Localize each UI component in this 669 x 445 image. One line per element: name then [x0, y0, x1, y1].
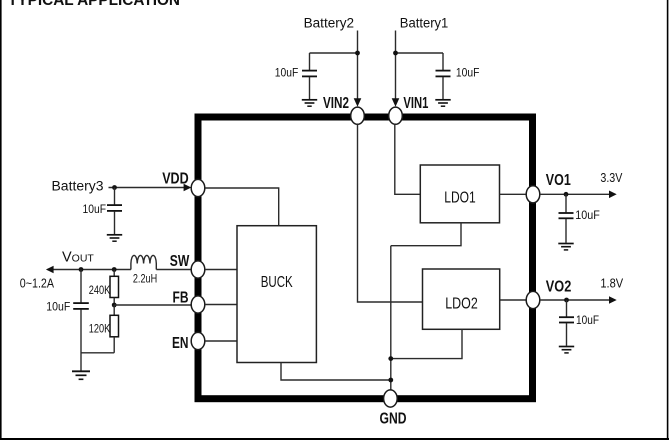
svg-text:240K: 240K: [89, 285, 111, 297]
label Battery1: [400, 15, 449, 30]
junction Battery1/VIN1: [393, 51, 398, 56]
label 0~1.2A: [20, 277, 55, 291]
wire Battery2 drop: [357, 31, 359, 102]
junction Battery3/C3: [112, 185, 117, 190]
pin FB: [191, 296, 205, 313]
ground C4: [72, 371, 90, 379]
resistor R2 120K: [110, 305, 119, 353]
arrow VOUT left: [46, 266, 54, 274]
capacitor C5 10uF: [559, 194, 574, 243]
wire VDD into BUCK top: [205, 188, 279, 226]
resistor R1 240K: [110, 270, 119, 306]
title TYPICAL APPLICATION (cut off at top): [8, 0, 180, 9]
wire LDO1 return: [391, 223, 461, 246]
pin EN: [191, 332, 205, 349]
label 1.8V: [600, 276, 623, 290]
svg-text:0~1.2A: 0~1.2A: [20, 277, 55, 291]
svg-text:2.2uH: 2.2uH: [133, 272, 157, 286]
wire FB to BUCK: [205, 304, 237, 306]
junction LDO2 return / GND trunk: [388, 356, 393, 361]
inductor L1 2.2uH: [131, 255, 156, 269]
ground C2: [435, 100, 450, 106]
wire EN to BUCK: [205, 340, 237, 342]
wire R2 bottom to C4 leg: [81, 352, 114, 354]
arrow into VIN2: [354, 98, 362, 107]
wire VIN1 into LDO1: [395, 124, 421, 194]
block LDO1: [420, 165, 499, 223]
label C1 10uF: [275, 66, 299, 80]
svg-text:Battery3: Battery3: [52, 179, 104, 194]
svg-text:FB: FB: [173, 290, 189, 307]
label C3 10uF: [83, 202, 107, 216]
capacitor C2 10uF: [436, 53, 451, 99]
label LDO1: [444, 189, 476, 206]
pin SW: [191, 261, 205, 278]
capacitor C4 10uF: [73, 270, 89, 371]
svg-text:TYPICAL APPLICATION: TYPICAL APPLICATION: [8, 0, 180, 9]
wire Battery1 drop: [395, 31, 397, 102]
label Battery2: [304, 15, 355, 30]
svg-text:120K: 120K: [89, 324, 111, 336]
pin VIN2: [351, 107, 365, 124]
svg-text:1.8V: 1.8V: [600, 276, 623, 290]
svg-text:SW: SW: [170, 253, 190, 270]
arrow VO1: [609, 191, 617, 199]
svg-text:Battery1: Battery1: [400, 15, 449, 30]
ground C5: [558, 244, 573, 250]
wire BUCK return to GND trunk: [281, 363, 391, 381]
junction VO2/C6: [564, 298, 569, 303]
wire Battery3 to VDD: [109, 187, 185, 189]
svg-text:VIN1: VIN1: [403, 95, 428, 112]
svg-text:10uF: 10uF: [46, 300, 70, 314]
capacitor C1 10uF: [302, 53, 317, 99]
IC U1 body: [198, 117, 533, 399]
label VOUT: [62, 250, 94, 266]
svg-text:10uF: 10uF: [456, 66, 480, 80]
svg-text:VO2: VO2: [546, 278, 572, 295]
junction BUCK return / GND trunk: [388, 378, 393, 383]
junction R1/R2/FB: [112, 303, 117, 308]
svg-text:VOUT: VOUT: [62, 250, 94, 266]
capacitor C3 10uF: [107, 188, 122, 235]
svg-text:GND: GND: [380, 410, 407, 427]
wire SW to BUCK: [205, 269, 237, 271]
wire VOUT rail: [48, 269, 131, 271]
block LDO2: [423, 269, 500, 329]
arrow into VIN1: [392, 98, 400, 107]
svg-text:10uF: 10uF: [576, 313, 599, 327]
wire VO2 out: [540, 299, 610, 301]
capacitor C6 10uF: [559, 300, 574, 346]
label C4 10uF: [46, 300, 70, 314]
pin label VDD: [162, 170, 189, 187]
pin VO1: [526, 186, 540, 203]
wire LDO1 to VO1: [500, 193, 527, 195]
svg-text:VIN2: VIN2: [323, 95, 349, 112]
svg-text:10uF: 10uF: [275, 66, 299, 80]
arrow VO2: [609, 296, 617, 304]
svg-text:BUCK: BUCK: [261, 274, 293, 291]
pin GND: [384, 390, 398, 407]
label R1 240K: [89, 285, 111, 297]
wire Battery1 branch to C2: [396, 52, 444, 54]
ground C3: [107, 235, 122, 241]
pin label GND: [380, 410, 407, 427]
junction Battery2/VIN2: [355, 51, 360, 56]
pin VIN1: [389, 107, 403, 124]
label LDO2: [445, 296, 478, 313]
wire L1 to SW: [156, 269, 191, 271]
label R2 120K: [89, 324, 111, 336]
frame bottom border: [0, 438, 669, 440]
svg-text:3.3V: 3.3V: [600, 171, 623, 185]
svg-text:VO1: VO1: [546, 172, 571, 189]
wire VIN2 into LDO2: [358, 124, 423, 302]
svg-text:LDO1: LDO1: [444, 189, 476, 206]
label Battery3: [52, 179, 104, 194]
label BUCK: [261, 274, 293, 291]
label C2 10uF: [456, 66, 480, 80]
ground C1: [302, 100, 317, 106]
frame right border: [667, 0, 669, 440]
svg-text:LDO2: LDO2: [445, 296, 478, 313]
block BUCK: [237, 226, 316, 363]
svg-text:EN: EN: [172, 335, 189, 352]
svg-text:VDD: VDD: [162, 170, 189, 187]
label 3.3V: [600, 171, 623, 185]
arrow into VDD: [184, 184, 192, 192]
junction VO1/C5: [564, 192, 569, 197]
label C6 10uF: [576, 313, 599, 327]
wire FB to divider: [114, 304, 191, 306]
pin VO2: [526, 291, 540, 308]
wire LDO2 to VO2: [500, 299, 527, 301]
frame left border: [0, 0, 2, 440]
junction VOUT/C4: [79, 267, 84, 272]
wire VO1 out: [540, 193, 610, 195]
svg-text:10uF: 10uF: [575, 208, 600, 222]
junction VOUT/R1: [112, 267, 117, 272]
pin label FB: [173, 290, 189, 307]
label L1 2.2uH: [133, 272, 157, 286]
pin VDD: [191, 179, 205, 196]
label C5 10uF: [575, 208, 600, 222]
pin label VIN1: [403, 95, 428, 112]
svg-text:Battery2: Battery2: [304, 15, 355, 30]
pin label EN: [172, 335, 189, 352]
wire Battery2 branch to C1: [310, 52, 358, 54]
ground C6: [559, 347, 574, 353]
pin label SW: [170, 253, 190, 270]
pin label VO2: [546, 278, 572, 295]
pin label VIN2: [323, 95, 349, 112]
wire LDO2 return: [391, 329, 462, 358]
wire GND trunk: [390, 246, 392, 390]
pin label VO1: [546, 172, 571, 189]
svg-text:10uF: 10uF: [83, 202, 107, 216]
